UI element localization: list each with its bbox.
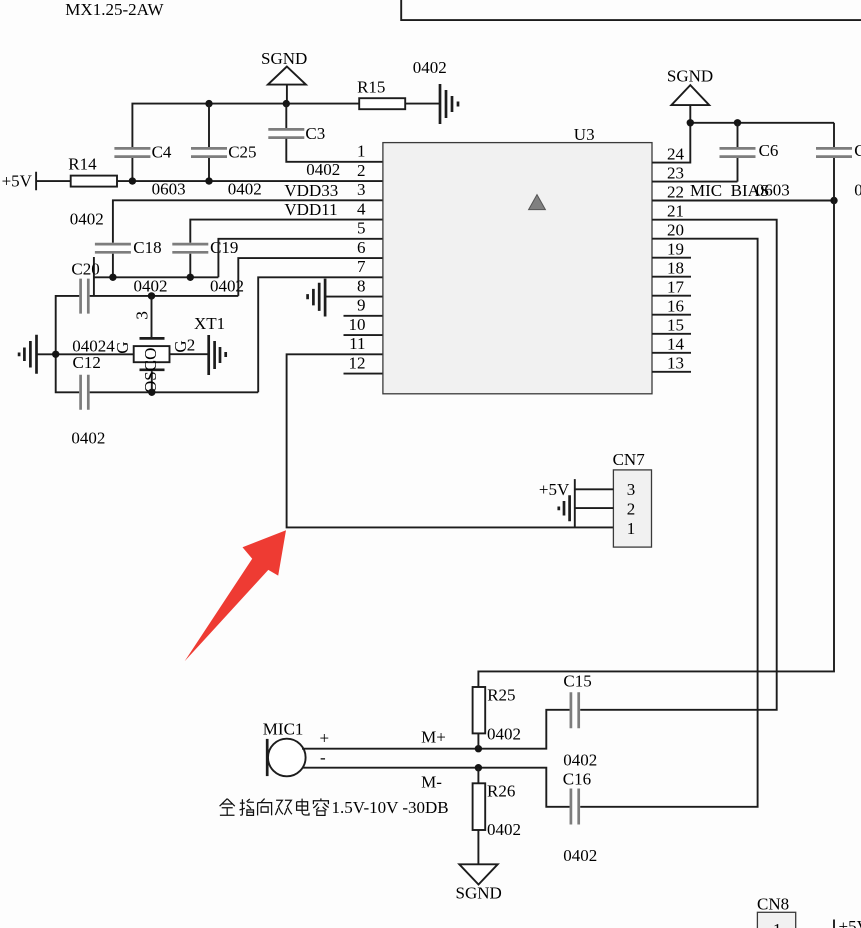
wire pin5 (to C18/C19 rail) bbox=[218, 239, 383, 277]
pin numbers 24-13 (right) bbox=[667, 144, 685, 372]
svg-text:2: 2 bbox=[627, 499, 636, 518]
svg-text:+5V: +5V bbox=[839, 917, 861, 928]
svg-text:2: 2 bbox=[187, 335, 196, 354]
annotation red arrow bbox=[185, 530, 286, 661]
capacitor C25 bbox=[191, 104, 257, 181]
pin stub 19 bbox=[652, 257, 691, 259]
ground (earth, right-pointing) at XT1 right bbox=[209, 335, 226, 375]
svg-text:8: 8 bbox=[357, 276, 366, 295]
junction dot XT1 top bbox=[148, 292, 155, 299]
resistor R25 bbox=[473, 685, 521, 748]
svg-text:OSCO: OSCO bbox=[141, 348, 160, 393]
svg-text:VDD11: VDD11 bbox=[284, 200, 337, 219]
svg-text:G: G bbox=[113, 341, 132, 353]
svg-text:SGND: SGND bbox=[667, 67, 713, 86]
svg-text:10: 10 bbox=[349, 315, 366, 334]
junction dot C25 top bbox=[205, 100, 212, 107]
pin stub CN7-3 bbox=[575, 488, 614, 490]
svg-text:R25: R25 bbox=[487, 685, 515, 704]
pin stub 14 bbox=[652, 352, 691, 354]
svg-text:0603: 0603 bbox=[756, 181, 790, 200]
svg-text:0402: 0402 bbox=[228, 180, 262, 199]
note Chinese annotation 全指向双电容 bbox=[220, 798, 329, 815]
wire pin7 (to rail C) bbox=[258, 277, 383, 392]
svg-text:MX1.25-2AW: MX1.25-2AW bbox=[65, 0, 164, 19]
junction dot M+ bbox=[475, 745, 482, 752]
connector CN7 bbox=[613, 450, 652, 547]
svg-text:5: 5 bbox=[357, 219, 366, 238]
capacitor C20 bbox=[71, 259, 99, 313]
capacitor C18 bbox=[95, 238, 162, 277]
capacitor C15 bbox=[563, 672, 597, 770]
pin stub 12 bbox=[344, 373, 384, 375]
svg-text:23: 23 bbox=[667, 163, 684, 182]
ground (earth, left-pointing) at CN7 pin2 bbox=[559, 495, 570, 521]
wire XT1 left to ground junction bbox=[37, 353, 134, 355]
junction dot MIC BIAS bbox=[830, 197, 837, 204]
svg-text:19: 19 bbox=[667, 239, 684, 258]
svg-text:15: 15 bbox=[667, 316, 684, 335]
wire M+ bbox=[302, 710, 570, 749]
wire rail C bbox=[90, 391, 259, 393]
svg-text:3: 3 bbox=[627, 480, 636, 499]
junction dot SGND right bbox=[687, 119, 694, 126]
svg-text:11: 11 bbox=[349, 334, 365, 353]
ground (earth, right-pointing) at R15 bbox=[440, 84, 458, 124]
wire pin1 (C3 to U3) bbox=[286, 139, 383, 162]
svg-text:0402: 0402 bbox=[563, 846, 597, 865]
svg-text:+5V: +5V bbox=[2, 171, 33, 190]
svg-text:22: 22 bbox=[667, 182, 684, 201]
svg-text:SGND: SGND bbox=[456, 884, 502, 903]
svg-text:0603: 0603 bbox=[152, 180, 186, 199]
svg-text:MIC1: MIC1 bbox=[263, 719, 304, 738]
svg-text:C18: C18 bbox=[133, 238, 161, 257]
svg-text:1: 1 bbox=[357, 142, 366, 161]
resistor R26 bbox=[473, 768, 521, 865]
wire pin8 to ground bbox=[325, 296, 383, 298]
svg-text:XT1: XT1 bbox=[194, 314, 225, 333]
svg-text:16: 16 bbox=[667, 296, 684, 315]
svg-text:20: 20 bbox=[667, 220, 684, 239]
title block frame corner bbox=[401, 0, 861, 20]
svg-text:R26: R26 bbox=[487, 782, 515, 801]
svg-text:0402: 0402 bbox=[487, 820, 521, 839]
wire rail B bbox=[56, 296, 239, 392]
wire rail A drop to rail B bbox=[93, 257, 95, 296]
wire M- bbox=[302, 768, 570, 807]
svg-text:1.5V-10V -30DB: 1.5V-10V -30DB bbox=[332, 798, 449, 817]
resistor R14 bbox=[68, 154, 117, 186]
microphone MIC1 bbox=[263, 719, 306, 776]
svg-text:C3: C3 bbox=[305, 124, 325, 143]
pin stub 16 bbox=[652, 314, 691, 316]
node SGND (left power symbol) bbox=[261, 49, 307, 104]
svg-text:1: 1 bbox=[627, 519, 636, 538]
svg-text:0402: 0402 bbox=[306, 160, 340, 179]
svg-text:3: 3 bbox=[357, 180, 366, 199]
svg-text:M+: M+ bbox=[421, 727, 446, 746]
junction dot C4 bottom bbox=[129, 177, 136, 184]
wire pin6 (to XT1 rail) bbox=[238, 258, 383, 296]
junction dot ground node bbox=[52, 351, 59, 358]
pin stub CN7-2 bbox=[575, 507, 614, 509]
resistor R15 bbox=[357, 78, 440, 110]
junction dot C18 bottom bbox=[109, 274, 116, 281]
wire VDD11 pin4 bbox=[190, 220, 383, 243]
wire XT1 right to ground bbox=[170, 353, 209, 355]
junction dot C3/SGND top bbox=[283, 100, 290, 107]
svg-text:0603: 0603 bbox=[854, 181, 861, 200]
node SGND (bottom, down triangle) bbox=[456, 864, 502, 902]
capacitor C7 (clipped at right) bbox=[816, 123, 861, 160]
svg-text:M-: M- bbox=[421, 773, 442, 792]
svg-text:0402: 0402 bbox=[413, 58, 447, 77]
svg-text:-: - bbox=[320, 748, 326, 767]
svg-text:U3: U3 bbox=[574, 125, 595, 144]
svg-text:+: + bbox=[320, 729, 330, 748]
IC U3 bbox=[383, 125, 652, 394]
svg-text:0402: 0402 bbox=[71, 428, 105, 447]
capacitor C19 bbox=[172, 238, 238, 277]
svg-text:C25: C25 bbox=[228, 143, 256, 162]
junction dot M- bbox=[475, 764, 482, 771]
svg-text:13: 13 bbox=[667, 354, 684, 373]
svg-text:17: 17 bbox=[667, 277, 685, 296]
wire R14 to pin2 bbox=[117, 180, 383, 182]
svg-text:14: 14 bbox=[667, 335, 685, 354]
svg-text:24: 24 bbox=[667, 144, 685, 163]
ground (earth, left-pointing) at XT1 left bbox=[19, 335, 36, 374]
pin numbers 1-12 (left) bbox=[349, 142, 367, 373]
wire CN8 pin1 to +5V bbox=[833, 920, 835, 928]
power +5V (left) bbox=[2, 171, 71, 190]
wire pin24 riser and top-right rail bbox=[652, 123, 834, 163]
pin stub 18 bbox=[652, 276, 691, 278]
node SGND (right power symbol) bbox=[667, 67, 713, 123]
svg-text:C7: C7 bbox=[854, 141, 861, 160]
pin stub 15 bbox=[652, 333, 691, 335]
capacitor C6 bbox=[720, 123, 779, 182]
capacitor C12 bbox=[81, 375, 89, 410]
svg-text:VDD33: VDD33 bbox=[284, 181, 338, 200]
svg-text:R14: R14 bbox=[68, 154, 97, 173]
svg-text:0402: 0402 bbox=[487, 724, 521, 743]
wire pin22 MIC BIAS bbox=[652, 200, 834, 202]
connector CN8 (clipped at bottom) bbox=[757, 895, 796, 928]
svg-text:12: 12 bbox=[349, 353, 366, 372]
svg-text:0402: 0402 bbox=[563, 751, 597, 770]
svg-text:1: 1 bbox=[773, 920, 782, 928]
pin stub 9 bbox=[344, 315, 384, 317]
svg-text:18: 18 bbox=[667, 258, 684, 277]
svg-text:C16: C16 bbox=[563, 769, 591, 788]
wire top rail (SGND rail to R15) bbox=[132, 104, 359, 147]
svg-text:2: 2 bbox=[357, 161, 366, 180]
wire rail A (C18/C19 bottoms) bbox=[94, 276, 218, 278]
svg-text:+5V: +5V bbox=[539, 480, 570, 499]
svg-text:CN7: CN7 bbox=[613, 450, 646, 469]
crystal XT1 bbox=[133, 296, 225, 393]
wire pin21 (to C15) bbox=[580, 220, 777, 710]
svg-text:R15: R15 bbox=[357, 78, 385, 97]
svg-text:C19: C19 bbox=[210, 238, 238, 257]
wire pin11 (to CN7 pin1) bbox=[287, 354, 614, 527]
svg-text:3: 3 bbox=[133, 311, 152, 320]
svg-text:C20: C20 bbox=[71, 259, 99, 278]
junction dot C6 top bbox=[734, 119, 741, 126]
pin stub 17 bbox=[652, 295, 691, 297]
capacitor C4 bbox=[114, 143, 172, 181]
svg-text:7: 7 bbox=[357, 257, 366, 276]
svg-text:CN8: CN8 bbox=[757, 895, 789, 914]
wire VDD33 pin3 bbox=[113, 200, 383, 242]
capacitor C16 bbox=[563, 769, 598, 865]
svg-text:C6: C6 bbox=[759, 141, 779, 160]
svg-text:4: 4 bbox=[357, 199, 366, 218]
svg-text:C15: C15 bbox=[563, 672, 591, 691]
pin stub 10 bbox=[344, 334, 384, 336]
wire pin23 (C6 bottom) bbox=[652, 181, 738, 183]
capacitor C3 bbox=[268, 104, 325, 144]
svg-text:21: 21 bbox=[667, 201, 684, 220]
svg-text:0402: 0402 bbox=[70, 210, 104, 229]
wire pin20 (to C16) bbox=[580, 239, 757, 807]
junction dot XT1 bottom bbox=[148, 389, 155, 396]
ground (earth, left-pointing) at pin8 bbox=[308, 279, 326, 317]
wire MIC BIAS down to R25 top bbox=[478, 158, 834, 687]
power +5V (CN7 pin3) bbox=[539, 479, 575, 527]
svg-text:SGND: SGND bbox=[261, 49, 307, 68]
pin stub 13 bbox=[652, 371, 691, 373]
svg-text:6: 6 bbox=[357, 238, 366, 257]
svg-text:9: 9 bbox=[357, 296, 366, 315]
svg-text:C12: C12 bbox=[73, 353, 101, 372]
junction dot C25 bottom bbox=[205, 177, 212, 184]
svg-text:C4: C4 bbox=[152, 143, 172, 162]
junction dot C19 bottom bbox=[187, 274, 194, 281]
